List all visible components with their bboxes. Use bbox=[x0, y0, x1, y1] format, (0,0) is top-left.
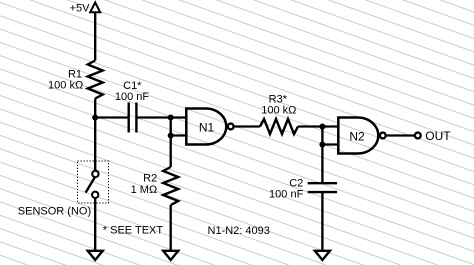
wire R2 to ground bbox=[170, 205, 172, 251]
capacitor C2 bbox=[308, 183, 337, 192]
svg-text:100 nF: 100 nF bbox=[269, 188, 304, 200]
wire node B to N1 input pin 1 bbox=[171, 116, 187, 118]
nand gate N1 output bubble bbox=[228, 124, 234, 130]
resistor R2 bbox=[163, 167, 178, 205]
svg-text:100 kΩ: 100 kΩ bbox=[261, 105, 296, 117]
wire N1 output to R3 bbox=[235, 125, 260, 127]
power +5V bbox=[90, 3, 100, 13]
wire N2 output to OUT terminal bbox=[387, 134, 415, 136]
svg-text:R1: R1 bbox=[68, 68, 82, 80]
ground (below C2) bbox=[315, 251, 330, 260]
wire R3 to node D bbox=[298, 125, 322, 127]
svg-text:SENSOR (NO): SENSOR (NO) bbox=[18, 206, 91, 218]
node B junction dot bbox=[168, 115, 174, 121]
wire node B to node C bbox=[170, 118, 172, 136]
node C junction dot bbox=[168, 133, 174, 139]
svg-text:N1-N2: 4093: N1-N2: 4093 bbox=[208, 225, 270, 237]
wire node E to C2 bbox=[321, 145, 323, 184]
capacitor C1 bbox=[129, 103, 137, 133]
nand gate N2 bbox=[338, 118, 378, 154]
wire C1 to node B bbox=[136, 116, 170, 118]
wire node C to R2 bbox=[170, 136, 172, 168]
switch lever bbox=[86, 178, 95, 193]
wire node C to N1 input pin 2 bbox=[171, 134, 187, 136]
svg-text:* SEE TEXT: * SEE TEXT bbox=[103, 225, 164, 237]
svg-text:100 nF: 100 nF bbox=[115, 91, 150, 103]
wire sensor to ground bbox=[94, 198, 96, 251]
svg-text:1 MΩ: 1 MΩ bbox=[131, 184, 158, 196]
sensor enclosure (dashed box) bbox=[78, 161, 109, 203]
wire node D to node E bbox=[321, 127, 323, 145]
node A junction dot bbox=[92, 115, 98, 121]
switch contact bottom bbox=[92, 192, 98, 198]
resistor R3 bbox=[260, 119, 298, 134]
wire C2 to ground bbox=[321, 192, 323, 251]
wire node A to C1 bbox=[95, 116, 128, 118]
node D junction dot bbox=[319, 124, 325, 130]
wire R1 to node A bbox=[94, 99, 96, 118]
nand gate N2 output bubble bbox=[380, 133, 386, 139]
svg-text:OUT: OUT bbox=[425, 129, 451, 143]
resistor R1 bbox=[88, 61, 103, 99]
nand gate N1 bbox=[186, 109, 226, 145]
node E junction dot bbox=[319, 142, 325, 148]
wire node A to sensor bbox=[94, 118, 96, 171]
wire node E to N2 input pin 2 bbox=[322, 143, 339, 145]
wire +5V to R1 bbox=[94, 12, 96, 60]
switch contact top bbox=[92, 171, 98, 177]
svg-text:N1: N1 bbox=[199, 120, 215, 134]
svg-text:+5V: +5V bbox=[70, 2, 91, 14]
svg-text:100 kΩ: 100 kΩ bbox=[48, 80, 83, 92]
ground (below R2) bbox=[163, 251, 178, 260]
ground (below sensor) bbox=[88, 251, 103, 260]
svg-text:R2: R2 bbox=[143, 173, 157, 185]
terminal OUT bbox=[415, 133, 421, 139]
wire node D to N2 input pin 1 bbox=[322, 125, 339, 127]
svg-text:N2: N2 bbox=[349, 129, 365, 143]
